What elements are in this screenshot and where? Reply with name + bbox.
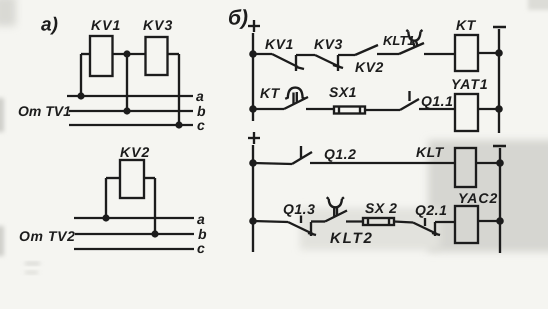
right bus section 1 (498, 29, 500, 133)
coil KLT (455, 148, 476, 187)
label phase c (top) (197, 117, 205, 133)
wire YAT1 to right bus (478, 108, 499, 110)
svg-text:KV2: KV2 (120, 144, 150, 160)
svg-text:Q1.2: Q1.2 (324, 146, 356, 162)
svg-text:c: c (197, 117, 205, 133)
scan shading bottom rung area (300, 208, 440, 250)
label phase c (bottom) (197, 240, 205, 256)
node right bus rung2 (495, 105, 503, 113)
coil YAC2 (455, 206, 478, 243)
label SX1 (329, 84, 357, 100)
coil KT (455, 35, 478, 71)
label KV3 (coil, fig a) (143, 17, 173, 33)
node bus2 rung3 (249, 159, 257, 167)
label SX 2 (365, 200, 397, 216)
svg-text:KV2: KV2 (355, 59, 384, 75)
node junction top fig a (123, 50, 130, 57)
node right bus rung3 (496, 159, 504, 167)
node right bus rung1 (495, 49, 503, 57)
wire left drop to phase a (80, 54, 82, 96)
contact Q1.1 (breaker NC) (400, 91, 455, 110)
scan shading right coil area (428, 140, 548, 252)
node right bus rung4 (496, 217, 504, 225)
label KV2 (coil, fig a bottom) (120, 144, 150, 160)
label Q1.1 (421, 93, 453, 109)
svg-text:KV3: KV3 (143, 17, 173, 33)
coil KV3 (146, 37, 168, 75)
wire KV2 left drop to phase a (105, 178, 107, 218)
connector SX1 (334, 107, 365, 114)
label phase a (bottom) (197, 211, 205, 227)
label phase a (top) (196, 88, 204, 104)
wire KV2 leads (106, 177, 155, 179)
phase line c (TV2) (74, 248, 194, 250)
contact Q1.3 (breaker NC) (288, 216, 325, 237)
svg-text:Q1.1: Q1.1 (421, 93, 453, 109)
label KV3 (contact) (314, 36, 343, 52)
label KLT2 (330, 230, 374, 247)
wire KLT to right bus (476, 162, 500, 164)
svg-text:KV1: KV1 (91, 17, 121, 33)
svg-text:KT: KT (260, 85, 281, 101)
scan smudge bottom-left dash (25, 262, 40, 265)
svg-text:а): а) (41, 15, 58, 36)
wire KT coil to right bus (478, 52, 499, 54)
wire top bus fig a (81, 53, 179, 55)
phase line b (TV1) (69, 110, 193, 112)
contact KV3 (NC) (315, 55, 355, 71)
label KV1 (contact) (265, 36, 294, 52)
contact KLT1 (NO with actuator) (399, 30, 455, 54)
wire bus to KV1 contact (253, 53, 272, 55)
minus terminal bar section 2 (493, 145, 506, 148)
plus terminal top (248, 20, 260, 32)
scan smudge left margin upper (0, 98, 4, 132)
label Q1.2 (324, 146, 356, 162)
connector SX2 (363, 218, 394, 225)
svg-text:a: a (197, 211, 205, 227)
wire SX2 to Q2.1 (394, 222, 413, 223)
wire bus to Q1.3 (253, 221, 288, 222)
svg-text:a: a (196, 88, 204, 104)
svg-text:От ТV2: От ТV2 (19, 228, 76, 244)
scan smudge left margin lower (0, 226, 4, 256)
label KV1 (coil, fig a) (91, 17, 121, 33)
node KV2 on phase a (102, 214, 109, 221)
label KLT (coil) (416, 144, 445, 160)
label Q1.3 (283, 201, 315, 217)
svg-text:KT: KT (456, 17, 477, 33)
label YAC2 (458, 190, 498, 206)
phase line b (TV2) (75, 233, 194, 235)
node bus1 rung1 (249, 50, 257, 58)
label phase b (top) (197, 103, 206, 119)
wire SX1 to Q1.1 (365, 109, 400, 111)
contact KV2 (NO) (355, 45, 399, 55)
node bus1 rung2 (249, 105, 257, 113)
label Ot TV2 (19, 228, 76, 244)
phase line c (TV1) (69, 124, 193, 126)
contact Q2.1 (breaker NC) (413, 218, 455, 236)
plus terminal section 2 (248, 132, 260, 144)
scan smudge top-left corner (0, 0, 16, 26)
svg-text:YAC2: YAC2 (458, 190, 498, 206)
label KT (contact) (260, 85, 281, 101)
svg-text:KLT: KLT (416, 144, 445, 160)
svg-text:б): б) (228, 7, 248, 30)
svg-text:Q1.3: Q1.3 (283, 201, 315, 217)
contact KLT2 (NO with actuator) (325, 197, 363, 221)
node on phase c (175, 121, 182, 128)
coil YAT1 (455, 94, 478, 131)
label a) (41, 15, 58, 36)
label KLT1 (383, 33, 415, 48)
svg-text:KLT2: KLT2 (330, 230, 374, 247)
svg-text:SX1: SX1 (329, 84, 357, 100)
label KV2 (contact) (355, 59, 384, 75)
svg-text:Q2.1: Q2.1 (415, 202, 447, 218)
contact Q1.2 (breaker NC) (292, 146, 455, 164)
svg-text:KV3: KV3 (314, 36, 343, 52)
scan smudge top-right corner (528, 0, 548, 10)
coil KV1 (90, 36, 113, 76)
right bus section 2 (499, 148, 501, 253)
wire YAC2 to right bus (478, 220, 500, 222)
label YAT1 (451, 76, 489, 92)
svg-text:KV1: KV1 (265, 36, 294, 52)
coil KV2 (120, 160, 144, 198)
node bus2 rung4 (249, 217, 257, 225)
node on phase a (77, 92, 84, 99)
node on phase b (123, 107, 130, 114)
label b) (228, 7, 248, 30)
phase line a (TV2) (74, 217, 194, 219)
label phase b (bottom) (198, 226, 207, 242)
minus terminal bar section 1 (493, 26, 506, 29)
phase line a (TV1) (67, 95, 193, 97)
label Ot TV1 (18, 103, 71, 119)
wire KV2 right drop to phase b (154, 178, 156, 234)
wire right drop to phase c (178, 54, 180, 125)
scan smudge bottom-left second (25, 271, 38, 274)
wire bus to KT contact (253, 108, 284, 110)
contact KV1 (NC) (272, 54, 315, 71)
label Q2.1 (415, 202, 447, 218)
wire middle drop to phase b (126, 54, 128, 111)
svg-text:От ТV1: От ТV1 (18, 103, 71, 119)
wire bus to Q1.2 (253, 163, 292, 164)
label KT (coil) (456, 17, 477, 33)
left bus section 1 (252, 33, 254, 121)
svg-text:c: c (197, 240, 205, 256)
node KV2 on phase b (151, 230, 158, 237)
svg-text:SX 2: SX 2 (365, 200, 397, 216)
left bus section 2 (252, 145, 254, 252)
svg-text:YAT1: YAT1 (451, 76, 489, 92)
contact KT (NO with mushroom actuator) (284, 88, 334, 109)
